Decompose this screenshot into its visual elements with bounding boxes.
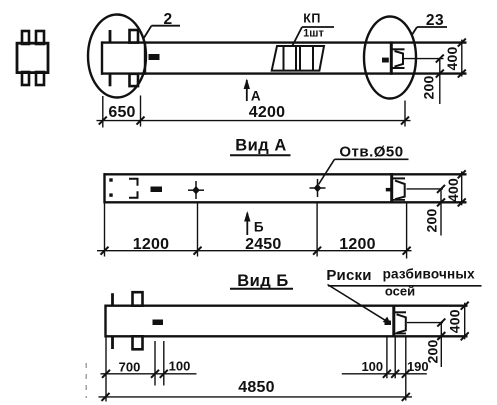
main view: beam end face bbox=[390, 41, 393, 74]
svg-text:4850: 4850 bbox=[238, 379, 274, 396]
callout 23 leader bbox=[412, 27, 418, 36]
view B: beam left face bbox=[104, 305, 106, 338]
dimension 650: extension lines bbox=[102, 96, 104, 128]
view B right: riska center extension bbox=[407, 322, 443, 324]
svg-text:Отв.Ø50: Отв.Ø50 bbox=[339, 144, 403, 161]
dimension 4200: right extension line bbox=[404, 101, 406, 127]
view A: lifting hole cross 1 bbox=[188, 181, 204, 199]
svg-text:Вид Б: Вид Б bbox=[237, 272, 288, 290]
dim ticks 650/4200 bbox=[99, 117, 409, 125]
callout label 23 bbox=[417, 12, 447, 29]
svg-text:100: 100 bbox=[169, 359, 191, 374]
Отв leader bbox=[319, 159, 335, 184]
view B: head top edge bbox=[395, 311, 406, 313]
view B right dimension line 100/190 bbox=[342, 373, 427, 375]
view A: beam bottom edge bbox=[104, 201, 467, 203]
main view right: 400 dimension line bbox=[444, 39, 466, 78]
svg-text:400: 400 bbox=[446, 309, 462, 333]
КП leader bbox=[293, 27, 303, 46]
view A title bbox=[230, 137, 291, 156]
svg-text:700: 700 bbox=[119, 360, 141, 375]
view A: hole cross 2 (Отв.50) bbox=[310, 179, 326, 197]
view B: beam end face bbox=[392, 305, 395, 338]
Риски leader arrow bbox=[328, 285, 391, 324]
view B right dim ticks bbox=[383, 370, 410, 378]
view A: embedded plate mark bbox=[151, 187, 163, 193]
callout 2 leader bbox=[144, 26, 152, 39]
svg-text:4200: 4200 bbox=[249, 104, 285, 121]
view A: head top edge bbox=[393, 177, 405, 179]
main view: beam left face bbox=[101, 41, 103, 74]
main view: head trapezoid bbox=[395, 51, 404, 67]
view A: beam left face bbox=[103, 173, 105, 203]
svg-text:100: 100 bbox=[361, 359, 383, 374]
view A right: 200 dimension bbox=[424, 185, 445, 236]
main view: detail ellipse right bbox=[364, 17, 416, 99]
view A: head bottom edge bbox=[393, 199, 405, 201]
svg-text:Риски: Риски bbox=[326, 267, 371, 284]
svg-text:650: 650 bbox=[108, 104, 135, 121]
svg-text:КП: КП bbox=[303, 12, 321, 26]
view direction arrow А bbox=[244, 79, 262, 104]
main view: riska plate mark bbox=[382, 58, 389, 63]
view B left dim ticks bbox=[102, 370, 168, 378]
svg-text:1шт: 1шт bbox=[303, 28, 324, 40]
main view: beam bottom edge bbox=[101, 72, 467, 74]
view A: plate dot upper bbox=[109, 178, 112, 181]
view B right dims: extension lines bbox=[387, 337, 406, 401]
view B: rebar tab line below bbox=[111, 336, 114, 349]
main view: column head joint line bbox=[144, 41, 146, 74]
main view: rebar tab rect below bbox=[130, 74, 139, 86]
view A dim ticks bbox=[101, 247, 411, 255]
label КП 1шт bbox=[302, 12, 334, 40]
cross-section rebar tab top-left bbox=[22, 31, 29, 44]
view B left dims: extension lines bbox=[106, 337, 164, 402]
view B: head trapezoid bbox=[397, 314, 406, 333]
label Отв. Ø50 bbox=[335, 144, 409, 161]
svg-text:200: 200 bbox=[421, 76, 437, 100]
svg-text:Вид А: Вид А bbox=[235, 137, 287, 155]
svg-text:разбивочных: разбивочных bbox=[383, 267, 475, 282]
view B: rebar tab rect below bbox=[133, 336, 143, 349]
view A right: riska center extension bbox=[407, 188, 444, 190]
view B: embedded plate mark bbox=[153, 320, 164, 326]
svg-text:2450: 2450 bbox=[245, 236, 281, 253]
formwork hatch parallelogram bbox=[272, 46, 324, 71]
view A: head trapezoid bbox=[395, 181, 405, 200]
view B: beam bottom edge bbox=[106, 335, 468, 337]
svg-text:осей: осей bbox=[385, 284, 415, 299]
view B: beam top edge bbox=[106, 305, 468, 307]
view A right: 400 dimension bbox=[445, 170, 466, 206]
view A: riska plate mark bbox=[386, 188, 392, 192]
view A: hidden plate corner bottom bbox=[129, 191, 138, 198]
callout label 2 bbox=[152, 11, 181, 28]
view A dimension line bbox=[97, 250, 412, 252]
main view: head bottom edge bbox=[392, 67, 405, 69]
svg-text:А: А bbox=[251, 89, 261, 104]
svg-text:1200: 1200 bbox=[133, 236, 169, 253]
main view: detail ellipse left bbox=[88, 15, 146, 98]
cross-section rebar tab bottom-left bbox=[22, 72, 29, 85]
main view: rebar tab rect above bbox=[130, 30, 139, 43]
view direction arrow Б bbox=[244, 211, 264, 235]
column cross-section outline bbox=[17, 43, 48, 72]
main view: embedded plate mark bbox=[149, 54, 160, 60]
svg-text:1200: 1200 bbox=[339, 236, 375, 253]
main view right: 200 dimension line bbox=[421, 55, 444, 104]
dimension line 650/4200 bbox=[97, 120, 411, 122]
dimension line 4850 bbox=[99, 396, 413, 398]
view B: rebar tab rect above bbox=[133, 292, 143, 306]
cross-section rebar tab bottom-right bbox=[36, 72, 44, 85]
view A: plate dot lower bbox=[109, 193, 112, 196]
cross-section rebar tab top-right bbox=[36, 31, 44, 44]
view B title bbox=[230, 272, 293, 290]
main view right: riska center extension bbox=[404, 58, 444, 60]
view B right: 200 dimension bbox=[424, 319, 445, 367]
main view: rebar tab line above bbox=[109, 30, 112, 43]
svg-text:200: 200 bbox=[424, 209, 440, 233]
view B: head bottom edge bbox=[395, 333, 406, 335]
main view: beam top edge bbox=[101, 41, 467, 43]
view A: beam end face bbox=[390, 173, 393, 203]
view B: riska plate mark bbox=[385, 321, 392, 326]
main view: head top edge bbox=[392, 48, 405, 50]
4850 ticks bbox=[102, 393, 410, 401]
view A: hidden plate corner top bbox=[129, 179, 138, 186]
view B right: 400 dimension bbox=[446, 302, 468, 341]
main view: rebar tab line below bbox=[109, 74, 112, 87]
view A dim extension lines bbox=[105, 203, 407, 258]
svg-text:200: 200 bbox=[424, 340, 440, 364]
label Риски разбивочных осей bbox=[326, 267, 481, 299]
svg-text:400: 400 bbox=[445, 178, 461, 202]
svg-text:400: 400 bbox=[444, 47, 460, 71]
view A: beam top edge bbox=[104, 173, 467, 175]
svg-text:Б: Б bbox=[254, 220, 264, 235]
view B: rebar tab line above bbox=[111, 293, 114, 306]
scan artifact dashed line bbox=[85, 363, 87, 398]
view B left dimension line 700/100 bbox=[101, 373, 197, 375]
